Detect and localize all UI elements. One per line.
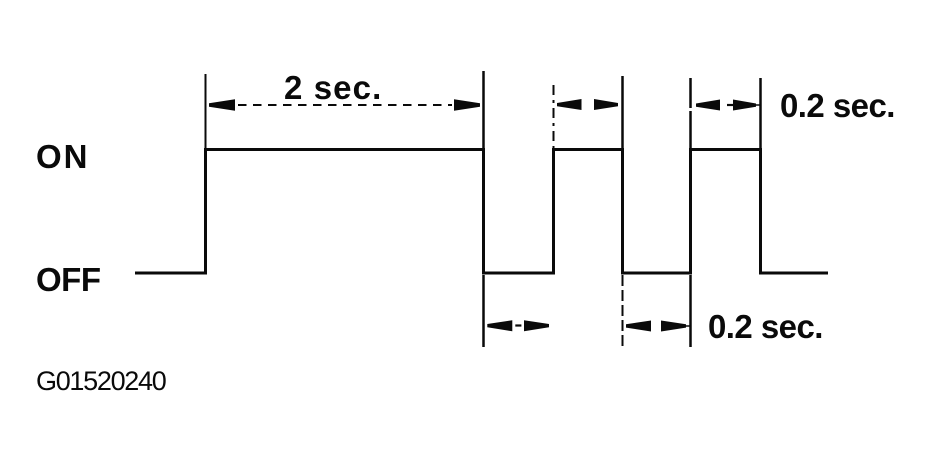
svg-text:ON: ON xyxy=(36,138,90,175)
svg-text:G01520240: G01520240 xyxy=(36,366,166,396)
svg-text:2 sec.: 2 sec. xyxy=(284,69,382,106)
svg-text:OFF: OFF xyxy=(36,261,100,298)
svg-text:0.2 sec.: 0.2 sec. xyxy=(708,308,823,345)
svg-text:0.2 sec.: 0.2 sec. xyxy=(780,87,895,124)
